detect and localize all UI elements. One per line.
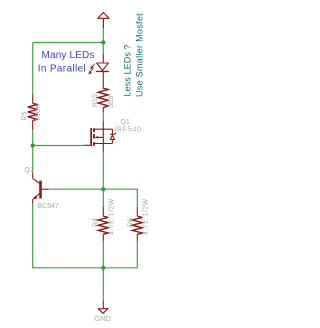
wire R4 to node D	[102, 241, 104, 268]
svg-text:BC547: BC547	[37, 203, 59, 210]
resistor R5	[28, 94, 38, 129]
body diode	[111, 129, 113, 134]
transistor Q2	[33, 173, 49, 204]
wire Q2 emitter rail	[33, 204, 104, 268]
svg-text:4.7E 1/2W: 4.7E 1/2W	[142, 198, 149, 235]
node A junction	[101, 40, 105, 44]
node D junction	[101, 266, 105, 270]
svg-text:Less LEDs ?: Less LEDs ?	[123, 44, 133, 96]
source lead	[102, 144, 104, 152]
wire Q2 base to node C	[49, 188, 104, 190]
svg-text:100K: 100K	[35, 104, 42, 121]
wire gate net	[33, 145, 85, 147]
svg-text:GND: GND	[94, 314, 111, 323]
wire R5 to node B	[32, 130, 34, 146]
wire R6 to node D	[103, 241, 137, 268]
svg-text:R5: R5	[21, 111, 28, 120]
svg-text:IRF540: IRF540	[114, 127, 141, 134]
wire node C to R4	[102, 189, 104, 207]
wire node D to GND	[102, 268, 104, 301]
wire node C to R6 branch	[103, 189, 137, 207]
ground symbol	[98, 301, 108, 314]
svg-text:4.7E 1/2W: 4.7E 1/2W	[108, 198, 115, 235]
wire Q1 source to node C	[102, 152, 104, 190]
node C junction	[101, 187, 105, 191]
svg-text:Q1: Q1	[120, 119, 129, 126]
transistor Q1 mosfet	[85, 122, 117, 152]
wire R19 to Q1 drain	[102, 112, 104, 121]
wire top rail	[33, 42, 104, 44]
svg-text:In Parallel: In Parallel	[38, 63, 86, 74]
svg-text:R6: R6	[127, 218, 134, 227]
svg-text:R19: R19	[92, 94, 99, 107]
gate pin	[85, 144, 91, 146]
LED diode	[97, 55, 109, 89]
node B junction	[31, 143, 35, 147]
svg-text:R4: R4	[93, 218, 100, 227]
wire node A to LED	[102, 43, 104, 55]
svg-text:Many LEDs: Many LEDs	[42, 50, 95, 61]
resistor R4	[98, 207, 108, 241]
svg-text:Q2: Q2	[24, 167, 34, 174]
LED emission arrows	[89, 64, 95, 74]
svg-text:3E9: 3E9	[108, 95, 115, 108]
wire left rail upper	[32, 43, 34, 95]
wire node B to Q2	[32, 146, 34, 173]
resistor R19	[98, 88, 108, 112]
bulk arrow	[95, 136, 103, 138]
wire VCC to node A	[102, 28, 104, 43]
svg-text:Use Smaller Mosfet: Use Smaller Mosfet	[135, 13, 145, 97]
resistor R6	[132, 207, 142, 241]
supply symbol VCC	[98, 13, 109, 28]
